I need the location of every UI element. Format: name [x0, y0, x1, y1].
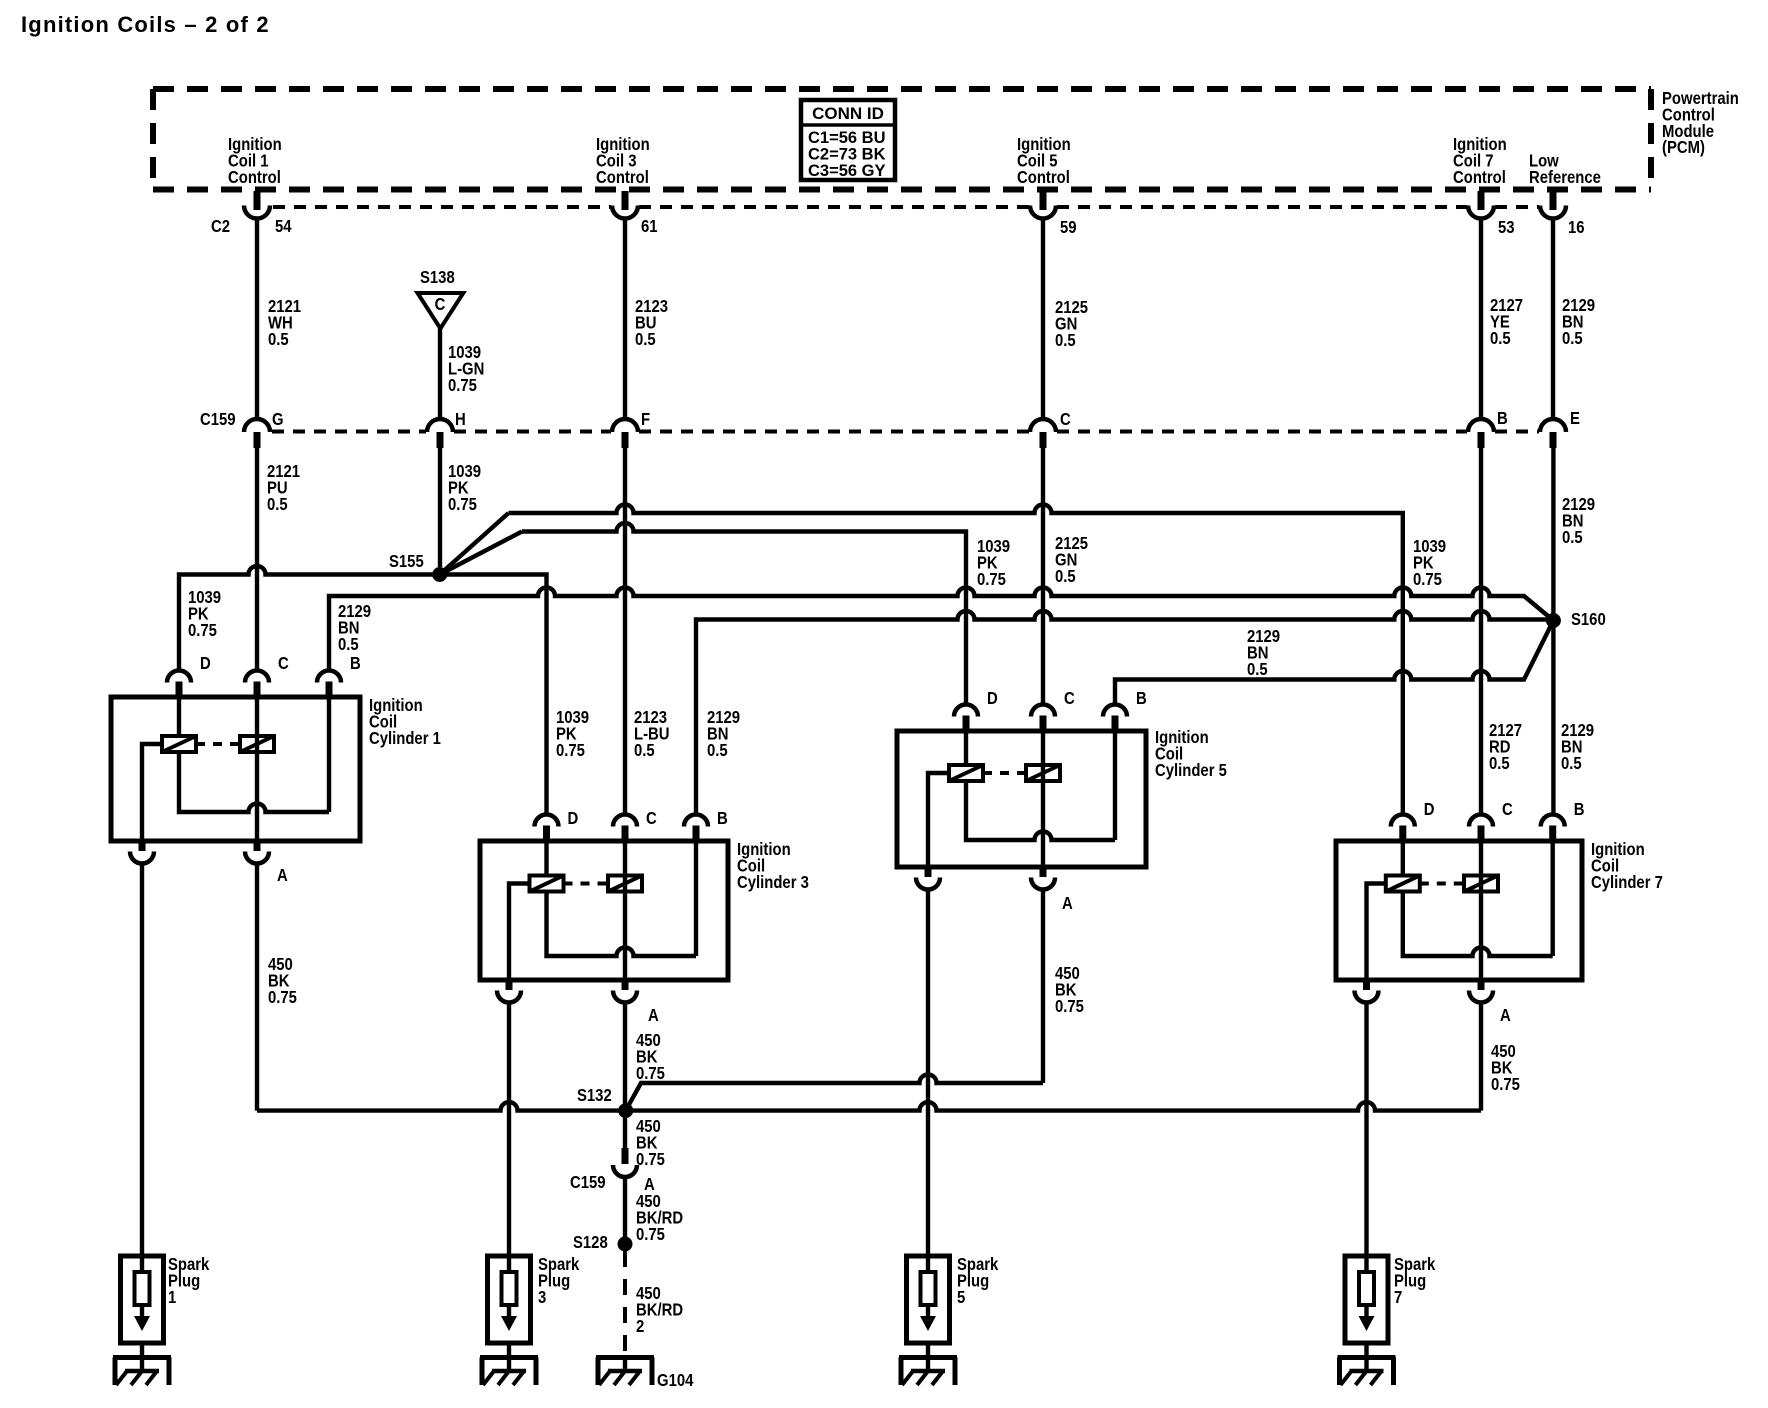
svg-text:54: 54 [275, 217, 292, 236]
svg-text:B: B [1136, 689, 1147, 708]
svg-text:53: 53 [1498, 218, 1515, 237]
svg-text:0.75: 0.75 [268, 988, 297, 1007]
svg-text:A: A [1062, 894, 1073, 913]
svg-text:1: 1 [168, 1288, 176, 1307]
svg-text:Cylinder 5: Cylinder 5 [1155, 761, 1227, 780]
svg-text:0.5: 0.5 [634, 741, 655, 760]
svg-text:B: B [350, 654, 361, 673]
svg-text:C2=73 BK: C2=73 BK [808, 145, 886, 163]
svg-text:2: 2 [636, 1317, 644, 1336]
svg-text:0.75: 0.75 [1055, 997, 1084, 1016]
svg-text:0.5: 0.5 [1561, 754, 1582, 773]
svg-text:S132: S132 [577, 1086, 612, 1105]
svg-text:C159: C159 [200, 410, 236, 429]
svg-text:D: D [987, 689, 998, 708]
svg-text:0.5: 0.5 [1489, 754, 1510, 773]
svg-text:C: C [278, 654, 289, 673]
svg-text:0.5: 0.5 [1490, 329, 1511, 348]
svg-text:C: C [1502, 800, 1513, 819]
svg-text:S155: S155 [389, 552, 424, 571]
svg-text:(PCM): (PCM) [1662, 138, 1705, 157]
svg-text:S138: S138 [420, 268, 455, 287]
svg-text:Cylinder 3: Cylinder 3 [737, 873, 809, 892]
svg-text:0.5: 0.5 [635, 330, 656, 349]
svg-text:S128: S128 [573, 1233, 608, 1252]
svg-text:B: B [1574, 800, 1585, 819]
svg-text:0.5: 0.5 [1562, 528, 1583, 547]
svg-text:0.5: 0.5 [707, 741, 728, 760]
svg-text:0.5: 0.5 [1055, 331, 1076, 350]
svg-text:0.75: 0.75 [636, 1064, 665, 1083]
svg-text:D: D [1424, 800, 1435, 819]
svg-text:59: 59 [1060, 218, 1077, 237]
svg-text:0.75: 0.75 [1491, 1075, 1520, 1094]
svg-text:0.5: 0.5 [1247, 660, 1268, 679]
svg-text:0.5: 0.5 [1055, 567, 1076, 586]
svg-text:A: A [277, 866, 288, 885]
svg-text:0.5: 0.5 [267, 495, 288, 514]
svg-text:61: 61 [641, 217, 658, 236]
svg-text:0.75: 0.75 [556, 741, 585, 760]
svg-text:0.5: 0.5 [1562, 329, 1583, 348]
svg-text:3: 3 [538, 1288, 546, 1307]
svg-text:0.75: 0.75 [636, 1225, 665, 1244]
svg-text:C: C [1064, 689, 1075, 708]
svg-text:16: 16 [1568, 218, 1585, 237]
svg-text:0.75: 0.75 [448, 376, 477, 395]
svg-text:Control: Control [596, 168, 649, 187]
svg-text:C: C [435, 295, 446, 314]
svg-text:S160: S160 [1571, 610, 1606, 629]
svg-text:0.75: 0.75 [188, 621, 217, 640]
svg-text:C1=56 BU: C1=56 BU [808, 129, 886, 147]
svg-text:0.5: 0.5 [338, 635, 359, 654]
svg-text:Control: Control [1453, 168, 1506, 187]
svg-text:A: A [1500, 1006, 1511, 1025]
svg-text:G104: G104 [657, 1371, 693, 1390]
svg-text:H: H [455, 410, 466, 429]
svg-text:Control: Control [1017, 168, 1070, 187]
svg-text:B: B [1497, 409, 1508, 428]
svg-text:CONN ID: CONN ID [812, 104, 884, 123]
svg-text:F: F [641, 410, 650, 429]
svg-text:Cylinder 1: Cylinder 1 [369, 729, 441, 748]
svg-text:7: 7 [1394, 1288, 1402, 1307]
svg-text:0.75: 0.75 [636, 1150, 665, 1169]
svg-text:Control: Control [228, 168, 281, 187]
svg-text:Cylinder 7: Cylinder 7 [1591, 873, 1663, 892]
svg-text:G: G [272, 410, 284, 429]
svg-text:0.75: 0.75 [977, 570, 1006, 589]
svg-text:B: B [717, 809, 728, 828]
svg-text:A: A [648, 1006, 659, 1025]
svg-text:0.75: 0.75 [1413, 570, 1442, 589]
svg-text:5: 5 [957, 1288, 965, 1307]
svg-text:D: D [568, 809, 579, 828]
svg-text:E: E [1570, 409, 1580, 428]
svg-text:C: C [646, 809, 657, 828]
svg-text:Ignition Coils – 2 of 2: Ignition Coils – 2 of 2 [21, 12, 270, 37]
svg-text:Reference: Reference [1529, 168, 1601, 187]
svg-text:0.75: 0.75 [448, 495, 477, 514]
svg-text:D: D [200, 654, 211, 673]
svg-text:C2: C2 [211, 217, 230, 236]
svg-text:C: C [1060, 410, 1071, 429]
svg-text:0.5: 0.5 [268, 330, 289, 349]
svg-text:C159: C159 [570, 1173, 606, 1192]
svg-text:C3=56 GY: C3=56 GY [808, 162, 886, 180]
